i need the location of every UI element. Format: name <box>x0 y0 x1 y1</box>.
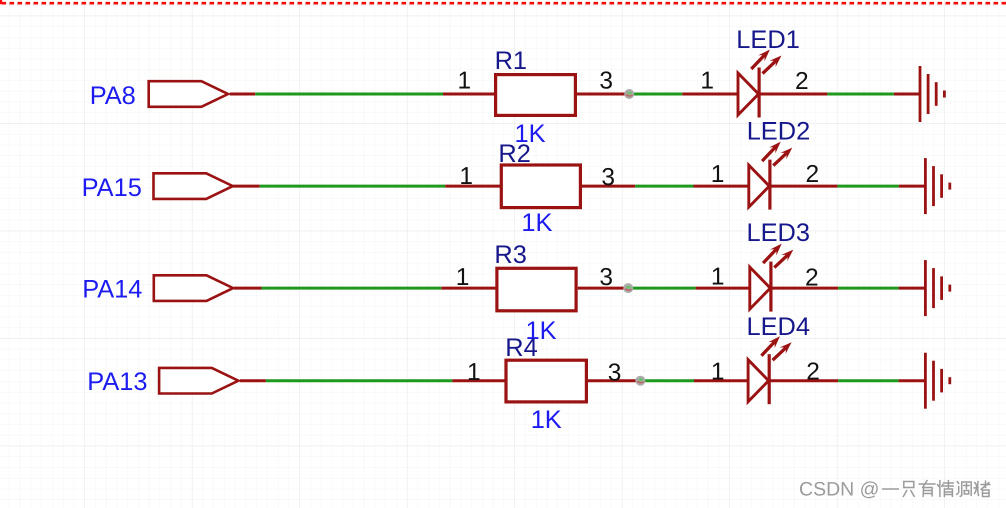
svg-text:LED3: LED3 <box>747 219 811 247</box>
wire <box>629 93 682 96</box>
svg-text:1K: 1K <box>521 209 552 237</box>
svg-text:1: 1 <box>456 264 470 291</box>
svg-text:CSDN @: CSDN @ <box>799 478 879 500</box>
wire <box>588 379 636 382</box>
wire <box>899 287 926 290</box>
wire <box>636 379 694 382</box>
wire <box>582 185 635 188</box>
svg-text:1: 1 <box>711 263 725 290</box>
junction dot <box>635 376 645 386</box>
svg-text:PA13: PA13 <box>87 368 147 396</box>
wire <box>894 93 920 96</box>
svg-text:3: 3 <box>599 68 613 95</box>
wire <box>577 93 629 96</box>
wire <box>769 379 838 382</box>
wire <box>452 379 505 382</box>
port PA8 <box>149 81 228 107</box>
svg-text:2: 2 <box>805 265 819 292</box>
svg-text:2: 2 <box>806 161 820 188</box>
svg-text:3: 3 <box>599 264 613 291</box>
resistor R1 <box>496 75 576 116</box>
junction dot <box>623 283 633 293</box>
wire <box>696 287 750 290</box>
svg-text:3: 3 <box>608 360 622 387</box>
LED LED4 <box>748 354 769 404</box>
svg-text:3: 3 <box>601 164 615 191</box>
svg-text:1K: 1K <box>531 406 562 434</box>
wire <box>694 185 749 188</box>
wire <box>827 93 894 96</box>
svg-text:1: 1 <box>700 68 714 95</box>
ground <box>925 158 949 214</box>
svg-text:1: 1 <box>711 359 725 386</box>
wire <box>635 185 693 188</box>
wire <box>266 379 453 382</box>
svg-text:1: 1 <box>459 163 473 190</box>
svg-text:PA14: PA14 <box>82 276 142 304</box>
LED LED3 <box>750 262 771 312</box>
svg-text:R4: R4 <box>505 334 537 362</box>
ground <box>920 66 944 122</box>
svg-text:R1: R1 <box>495 47 527 75</box>
wire <box>234 287 262 290</box>
junction dot <box>624 89 634 99</box>
svg-text:2: 2 <box>795 68 809 95</box>
LED arrows <box>763 244 793 268</box>
wire <box>838 379 899 382</box>
svg-text:PA15: PA15 <box>82 174 142 202</box>
svg-text:2: 2 <box>806 359 820 386</box>
svg-text:R3: R3 <box>494 241 526 269</box>
port PA15 <box>154 173 233 199</box>
wire <box>837 185 898 188</box>
svg-text:LED2: LED2 <box>747 117 811 145</box>
wire <box>255 93 443 96</box>
port PA14 <box>154 275 233 301</box>
svg-text:1: 1 <box>711 161 725 188</box>
wire <box>260 185 446 188</box>
resistor R2 <box>501 165 580 208</box>
wire <box>899 379 926 382</box>
wire <box>771 287 838 290</box>
port PA13 <box>159 368 238 394</box>
svg-text:1: 1 <box>467 359 481 386</box>
wire <box>578 287 629 290</box>
wire <box>240 379 266 382</box>
ground <box>925 260 949 316</box>
svg-text:LED1: LED1 <box>736 26 800 54</box>
wire <box>445 185 500 188</box>
svg-text:R2: R2 <box>498 140 530 168</box>
LED arrows <box>762 142 792 166</box>
ground <box>925 353 949 409</box>
watermark CSDN <box>799 478 990 500</box>
LED arrows <box>751 50 781 74</box>
wire <box>262 287 442 290</box>
LED LED2 <box>749 160 770 210</box>
LED arrows <box>761 336 791 360</box>
svg-text:LED4: LED4 <box>747 313 811 341</box>
resistor R3 <box>497 268 576 311</box>
wire <box>443 93 495 96</box>
wire <box>628 287 695 290</box>
svg-text:PA8: PA8 <box>90 82 136 110</box>
LED LED1 <box>738 68 759 118</box>
svg-text:1: 1 <box>458 68 472 95</box>
resistor R4 <box>506 360 586 402</box>
wire <box>682 93 737 96</box>
wire <box>441 287 496 290</box>
wire <box>770 185 838 188</box>
wire <box>233 185 260 188</box>
wire <box>759 93 828 96</box>
wire <box>838 287 899 290</box>
wire <box>899 185 926 188</box>
wire <box>230 93 256 96</box>
wire <box>694 379 748 382</box>
